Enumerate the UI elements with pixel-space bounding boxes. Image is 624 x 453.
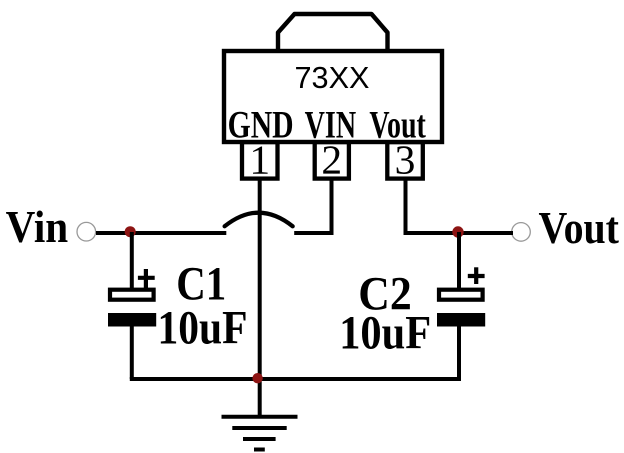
regulator U1 package tab: [278, 14, 388, 53]
node Vin terminal circle: [77, 222, 96, 241]
wire ground rail: [130, 377, 461, 381]
ground symbol: [222, 417, 298, 450]
capacitor C1 bottom plate: [108, 313, 156, 327]
capacitor C1 top plate: [110, 290, 154, 300]
svg-text:73XX: 73XX: [295, 61, 370, 95]
wire C1 to rail: [130, 326, 134, 379]
label Vout: [538, 202, 619, 253]
junction node Vout: [452, 226, 463, 237]
capacitor C2 top plate: [439, 290, 483, 300]
value label 10uF C2: [339, 308, 431, 360]
svg-text:Vin: Vin: [6, 201, 69, 252]
wire hop right to pin 2 elbow: [294, 179, 331, 233]
wire pin 3 to Vout node: [406, 179, 459, 233]
label C2: [358, 269, 412, 321]
value label 10uF C1: [158, 303, 248, 355]
pin number 3: [395, 137, 416, 183]
pin 3 box: [387, 142, 423, 178]
svg-text:3: 3: [395, 137, 416, 183]
value label 73XX: [295, 61, 370, 95]
wire Vin node down to C1: [130, 232, 134, 289]
pin number 1: [249, 137, 270, 183]
regulator U1 package body: [224, 51, 442, 142]
node Vout terminal circle: [512, 223, 531, 242]
junction node Vin: [125, 226, 136, 237]
svg-text:Vout: Vout: [538, 202, 619, 253]
label C1: [176, 259, 226, 311]
junction node ground rail: [252, 373, 262, 383]
wire Vout node to terminal: [458, 231, 513, 235]
svg-text:10uF: 10uF: [158, 303, 248, 355]
pin 2 box: [315, 142, 349, 178]
pin label VIN: [305, 103, 357, 147]
svg-text:1: 1: [249, 137, 270, 183]
capacitor C2 bottom plate: [437, 313, 485, 327]
pin 1 box: [242, 142, 278, 178]
label Vin: [6, 201, 69, 252]
pin label GND: [228, 103, 294, 147]
wire Vout node down to C2: [457, 232, 461, 289]
svg-text:2: 2: [321, 137, 342, 183]
pin label Vout: [369, 103, 426, 147]
wire pin 1 GND vertical: [258, 179, 262, 417]
svg-text:10uF: 10uF: [339, 308, 431, 360]
wire C2 to rail: [457, 326, 461, 379]
capacitor C2 plus sign: [468, 267, 485, 284]
capacitor C1 plus sign: [138, 269, 155, 289]
pin number 2: [321, 137, 342, 183]
wire Vin terminal to hop: [96, 231, 226, 235]
wire hop arc over GND wire: [225, 213, 293, 227]
